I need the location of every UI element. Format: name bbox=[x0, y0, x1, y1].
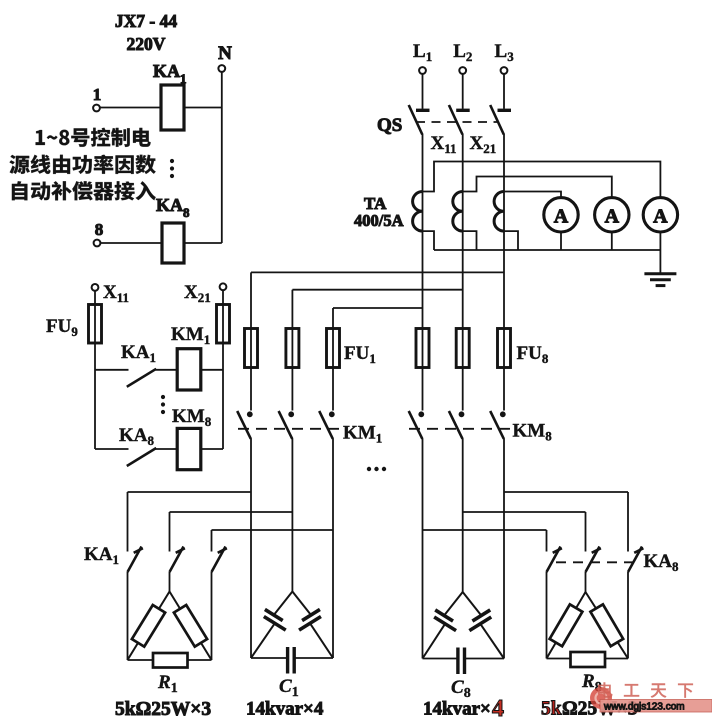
relay switch KA1 pole 3 bbox=[211, 530, 213, 552]
capacitor bottom wires bbox=[251, 657, 288, 659]
relay contact KA1 bbox=[95, 369, 129, 371]
wire KA8 pole drop bbox=[627, 572, 629, 659]
ground bbox=[644, 272, 676, 275]
wire L3 to C8 bbox=[503, 492, 505, 659]
svg-text:A: A bbox=[605, 206, 620, 228]
CT winding TA phase 1 bbox=[413, 192, 423, 232]
wire L3 drop to QS bbox=[503, 74, 505, 109]
disconnector QS pole 3 bbox=[498, 109, 512, 112]
svg-text:8: 8 bbox=[183, 205, 190, 220]
wire right control drop bbox=[222, 370, 224, 449]
wire KM1 coil right bbox=[201, 369, 223, 371]
svg-text:8: 8 bbox=[95, 220, 104, 239]
ellipsis dots control bbox=[170, 159, 174, 163]
contactor contact KM pole 1 bbox=[250, 368, 252, 411]
relay coil KA8 bbox=[162, 223, 184, 263]
disconnector QS pole 2 bbox=[456, 109, 470, 112]
contactor contact KM pole 5 bbox=[462, 368, 464, 411]
wire L1 drop to QS bbox=[422, 74, 424, 109]
svg-text:220V: 220V bbox=[127, 34, 166, 54]
svg-text:KA8: KA8 bbox=[119, 425, 155, 448]
watermark text dianGongTianXia bbox=[598, 682, 693, 698]
svg-text:14kvar×4: 14kvar×4 bbox=[246, 699, 324, 720]
contactor coil KM8 bbox=[177, 428, 201, 469]
contactor contact KM pole 4 bbox=[422, 368, 424, 411]
wire KA1 pole drop bbox=[211, 572, 213, 660]
svg-text:FU9: FU9 bbox=[46, 316, 78, 339]
svg-text:FU8: FU8 bbox=[517, 343, 549, 366]
svg-text:5k: 5k bbox=[541, 699, 562, 720]
wire branch2 drop bbox=[291, 290, 293, 329]
svg-text:14kvar×: 14kvar× bbox=[423, 699, 491, 720]
wire KA1 coil to N line bbox=[184, 107, 222, 109]
wire row1 left bbox=[128, 491, 252, 493]
svg-text:1: 1 bbox=[93, 85, 102, 104]
wire ammeter bottom bus bbox=[434, 249, 660, 251]
svg-text:A: A bbox=[653, 206, 668, 228]
note text line3 bbox=[12, 181, 156, 200]
ammeter A2 bbox=[595, 198, 629, 232]
wire branch2 to C1 apex bbox=[291, 512, 293, 592]
svg-text:L2: L2 bbox=[453, 41, 472, 64]
ellipsis dots control2 bbox=[161, 395, 165, 399]
fuse FU1b bbox=[291, 329, 293, 368]
wire branch3 to C1 bbox=[332, 530, 334, 658]
wire N vertical bbox=[221, 72, 223, 243]
relay switch KA8 pole 2 bbox=[585, 512, 587, 552]
relay switch KA8 pole 1 bbox=[546, 530, 548, 552]
node X11 bbox=[92, 284, 99, 291]
wire branch1 drop bbox=[250, 272, 252, 329]
resistor R8 right element bbox=[590, 604, 623, 646]
fuse FU8a bbox=[422, 329, 424, 368]
svg-text:KA1: KA1 bbox=[84, 544, 119, 567]
wire tap row A (L3 to branch1) bbox=[251, 271, 504, 273]
capacitor bottom wires bbox=[423, 658, 458, 660]
watermark logo disc bbox=[590, 687, 612, 709]
wire CT1 secondary bottom to bus bbox=[423, 231, 435, 250]
capacitor left side wires bbox=[444, 592, 463, 616]
wire KA1 pole drop bbox=[169, 572, 171, 592]
svg-text:L1: L1 bbox=[413, 41, 432, 64]
wire L1 to C8 bbox=[422, 530, 424, 659]
fuse FU8c bbox=[503, 329, 505, 368]
svg-text:R1: R1 bbox=[157, 672, 178, 696]
wire row1 right bbox=[504, 491, 628, 493]
svg-text:KM1: KM1 bbox=[343, 423, 382, 446]
KM8 linkage dashed bbox=[409, 428, 511, 430]
wire CT1 secondary top to A3 bbox=[423, 162, 661, 198]
fuse FU1a bbox=[250, 329, 252, 368]
wire terminal1 to KA1 coil bbox=[100, 107, 161, 109]
wire row3 right bbox=[423, 529, 547, 531]
disconnector QS pole 1 bbox=[416, 109, 430, 112]
wire row2 right bbox=[463, 511, 586, 513]
svg-text:A: A bbox=[554, 206, 569, 228]
wire CT3 secondary top to A1 bbox=[504, 192, 561, 198]
wire A2 stem bbox=[611, 232, 613, 250]
svg-text:FU1: FU1 bbox=[344, 343, 376, 366]
QS linkage dashed bbox=[416, 121, 497, 123]
wire CT3 secondary bottom to bus bbox=[504, 231, 518, 250]
resistor R1 right element bbox=[174, 605, 207, 647]
contactor contact KM pole 6 bbox=[503, 368, 505, 411]
svg-text:KA: KA bbox=[153, 61, 180, 81]
wire KA8 pole drop bbox=[585, 572, 587, 592]
wire R1 bottom bbox=[128, 659, 212, 661]
capacitor bottom plates bbox=[286, 647, 289, 674]
fuse FU9 bbox=[94, 291, 96, 370]
watermark url bar bbox=[600, 700, 712, 713]
resistor R1 bottom element bbox=[153, 653, 188, 668]
wire KA8 coil to N line bbox=[184, 242, 222, 244]
capacitor left side wires bbox=[274, 592, 293, 616]
capacitor right plates bbox=[302, 609, 320, 620]
svg-text:400/5A: 400/5A bbox=[354, 211, 404, 230]
fuse X21 side bbox=[222, 290, 224, 370]
fuse FU1c bbox=[332, 329, 334, 368]
wire branch3 drop bbox=[332, 308, 334, 329]
wire row3 left bbox=[212, 529, 334, 531]
wire L2 drop to QS bbox=[462, 74, 464, 109]
wire row2 left bbox=[170, 511, 293, 513]
note text line1 bbox=[36, 128, 151, 147]
wire A3 stem bbox=[659, 232, 661, 250]
svg-text:KA: KA bbox=[156, 195, 183, 215]
svg-text:5kΩ25W×3: 5kΩ25W×3 bbox=[115, 699, 211, 720]
wire KA8 pole drop bbox=[546, 572, 548, 659]
svg-text:X21: X21 bbox=[184, 282, 211, 305]
wire below QS pole 1 bbox=[422, 134, 424, 329]
ellipsis between banks bbox=[367, 467, 371, 471]
wire to ground bbox=[659, 250, 661, 273]
wire below QS pole 3 bbox=[503, 134, 505, 329]
capacitor bottom plates bbox=[456, 648, 459, 675]
capacitor right side wires bbox=[292, 592, 311, 616]
svg-text:L3: L3 bbox=[495, 41, 515, 64]
svg-text:QS: QS bbox=[377, 115, 402, 136]
svg-text:X11: X11 bbox=[103, 282, 129, 305]
wire terminal8 to KA8 coil bbox=[101, 242, 163, 244]
wire A1 stem bbox=[560, 232, 562, 250]
svg-text:KM8: KM8 bbox=[513, 421, 553, 444]
wire tap row C (L1 to branch3) bbox=[333, 307, 423, 309]
svg-text:KA8: KA8 bbox=[644, 551, 680, 574]
relay contact KA8 bbox=[95, 448, 129, 450]
resistor delta R8 sides bbox=[547, 592, 629, 659]
wire CT2 secondary bottom to bus bbox=[463, 231, 477, 250]
svg-text:C1: C1 bbox=[279, 676, 299, 700]
contactor contact KM pole 2 bbox=[291, 368, 293, 411]
resistor R8 bottom element bbox=[571, 652, 606, 667]
svg-text:X11: X11 bbox=[431, 133, 457, 156]
resistor R1 left element bbox=[132, 605, 165, 647]
contactor contact KM pole 3 bbox=[332, 368, 334, 411]
capacitor left plates bbox=[265, 609, 283, 620]
wire tap row B (L2 to branch2) bbox=[292, 289, 462, 291]
relay switch KA8 pole 3 bbox=[627, 492, 629, 552]
capacitor right side wires bbox=[463, 592, 482, 616]
KM1 linkage dashed bbox=[238, 428, 340, 430]
svg-text:KA1: KA1 bbox=[121, 342, 156, 365]
svg-text:C8: C8 bbox=[451, 677, 471, 701]
svg-text:4: 4 bbox=[492, 696, 504, 722]
contactor coil KM1 bbox=[177, 349, 201, 390]
ammeter A3 bbox=[643, 198, 677, 232]
capacitor left plates bbox=[435, 610, 453, 621]
relay switch KA1 pole 2 bbox=[169, 512, 171, 552]
wire KM8 coil right bbox=[201, 448, 223, 450]
capacitor right plates bbox=[472, 610, 490, 621]
resistor delta R1 sides bbox=[128, 592, 212, 661]
CT winding TA phase 3 bbox=[494, 192, 504, 232]
wire L2 to C8 apex bbox=[462, 512, 464, 592]
ammeter A1 bbox=[544, 198, 578, 232]
KA8 linkage dashed bbox=[556, 561, 640, 563]
svg-text:X21: X21 bbox=[470, 133, 497, 156]
relay switch KA1 pole 1 bbox=[127, 492, 129, 552]
wire left control drop bbox=[94, 370, 96, 449]
wire below QS pole 2 bbox=[462, 134, 464, 329]
fuse FU8b bbox=[462, 329, 464, 368]
CT winding TA phase 2 bbox=[453, 192, 463, 232]
note text line2 bbox=[10, 155, 156, 174]
wire R8 bottom bbox=[547, 658, 629, 660]
svg-text:JX7 - 44: JX7 - 44 bbox=[115, 11, 177, 31]
resistor R8 left element bbox=[550, 604, 583, 646]
svg-text:KM1: KM1 bbox=[171, 324, 210, 347]
svg-text:N: N bbox=[218, 43, 232, 64]
wire CT2 secondary top to A2 bbox=[463, 177, 612, 198]
wire branch1 to C1 bbox=[250, 492, 252, 658]
svg-text:KM8: KM8 bbox=[172, 406, 212, 429]
wire KA1 pole drop bbox=[127, 572, 129, 660]
svg-text:www.dgjs123.com: www.dgjs123.com bbox=[603, 702, 685, 713]
